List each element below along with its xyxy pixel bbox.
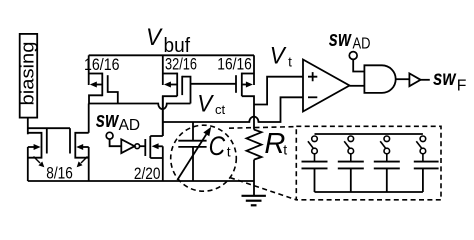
wire: V_ct rail with hop over V_t column: [163, 97, 303, 122]
capacitor C1: [302, 162, 328, 169]
comparator U2: [303, 60, 350, 112]
node V_t label: [270, 42, 292, 69]
node sw_F label: [433, 67, 467, 95]
wire: gate bias line H_A with hop under P2 drain: [89, 104, 191, 110]
inverter U1: [121, 139, 139, 153]
capacitor C3: [374, 162, 400, 169]
wire: bubble to inverter input: [110, 139, 122, 146]
dashed ellipse around C_t: [171, 125, 237, 191]
wire: PMOS gate line P2->P3: [191, 83, 237, 85]
svg-text:C: C: [209, 131, 226, 161]
svg-text:sw: sw: [329, 26, 352, 51]
dashed callout funnel top: [229, 127, 296, 129]
wire: left column from rail (P1 source): [88, 55, 90, 85]
switch S1: [308, 136, 317, 162]
AND gate U3: [364, 65, 395, 93]
transistor M3 (NMOS 2/20 switch): [145, 136, 163, 181]
switch S3: [380, 136, 389, 162]
svg-text:V: V: [146, 24, 163, 51]
node V_buf label: [146, 24, 190, 57]
wire: V_buf top rail: [89, 54, 254, 56]
leader arrow right to M2: [77, 157, 88, 168]
svg-text:t: t: [227, 143, 231, 159]
svg-text:32/16: 32/16: [165, 56, 197, 74]
transistor P2 (PMOS 32/16): [163, 55, 191, 136]
transistor M2 (NMOS 8/16 right): [70, 128, 89, 181]
wire: AND to buffer: [396, 78, 410, 80]
leader arrow left to M1: [34, 157, 45, 168]
cap bank top rail: [315, 133, 423, 135]
wire: buffer output: [421, 79, 430, 81]
wire: biasing output down to M1 drain: [27, 118, 29, 135]
resistor R_t: [247, 130, 262, 196]
svg-text:sw: sw: [433, 67, 457, 90]
node: gate rail of 8/16 mirror (diode connection): [28, 127, 70, 129]
wire: comparator output to AND: [350, 85, 365, 87]
terminal bubble sw_AD right: [349, 52, 357, 60]
dashed box (C_t detail): [296, 126, 441, 200]
switch S2: [344, 136, 353, 162]
transistor M1 (NMOS 8/16 left, diode-connected): [28, 128, 47, 181]
buffer U4: [409, 73, 420, 86]
switch S4: [416, 136, 425, 162]
terminal bubble sw_AD left: [106, 132, 113, 139]
svg-text:t: t: [283, 142, 287, 158]
ground symbol: [242, 196, 266, 206]
label R_t: [264, 128, 287, 160]
svg-text:2/20: 2/20: [134, 164, 161, 183]
svg-text:16/16: 16/16: [84, 56, 120, 74]
svg-text:t: t: [288, 55, 292, 70]
wire: bottom ground rail: [28, 180, 254, 182]
capacitor C2: [338, 162, 364, 169]
node sw_AD label (left): [96, 107, 140, 134]
wire: bubble to AND input: [353, 59, 364, 71]
wire: inverter output to M3 gate: [140, 145, 146, 147]
capacitor C_t (variable): [177, 122, 211, 181]
svg-text:buf: buf: [164, 35, 191, 57]
label C_t: [209, 131, 231, 161]
transistor P3 (PMOS 16/16 right, mirrored): [236, 55, 254, 129]
svg-text:R: R: [264, 128, 285, 160]
svg-text:AD: AD: [119, 117, 141, 134]
wire: V_t node to comparator + input: [254, 77, 303, 105]
svg-text:biasing: biasing: [18, 42, 38, 106]
svg-text:F: F: [457, 78, 467, 95]
capacitor C4: [414, 162, 439, 169]
svg-text:16/16: 16/16: [217, 55, 252, 73]
wire: left column down to M2 drain: [88, 104, 90, 133]
svg-text:8/16: 8/16: [46, 163, 73, 182]
wire: P2 drain column through V_ct to M3 drain: [162, 96, 164, 136]
svg-text:V: V: [197, 90, 214, 117]
dashed callout funnel bottom: [230, 178, 296, 200]
node V_ct label: [197, 90, 225, 117]
node sw_AD label (top right): [329, 26, 371, 53]
transistor P1 (PMOS 16/16 left, diode-connected): [89, 73, 118, 104]
svg-text:sw: sw: [96, 107, 120, 132]
biasing block: [20, 34, 38, 118]
svg-text:V: V: [270, 42, 287, 69]
cap bank bottom rail: [315, 191, 423, 193]
svg-text:ct: ct: [215, 102, 226, 117]
svg-text:AD: AD: [353, 36, 371, 53]
